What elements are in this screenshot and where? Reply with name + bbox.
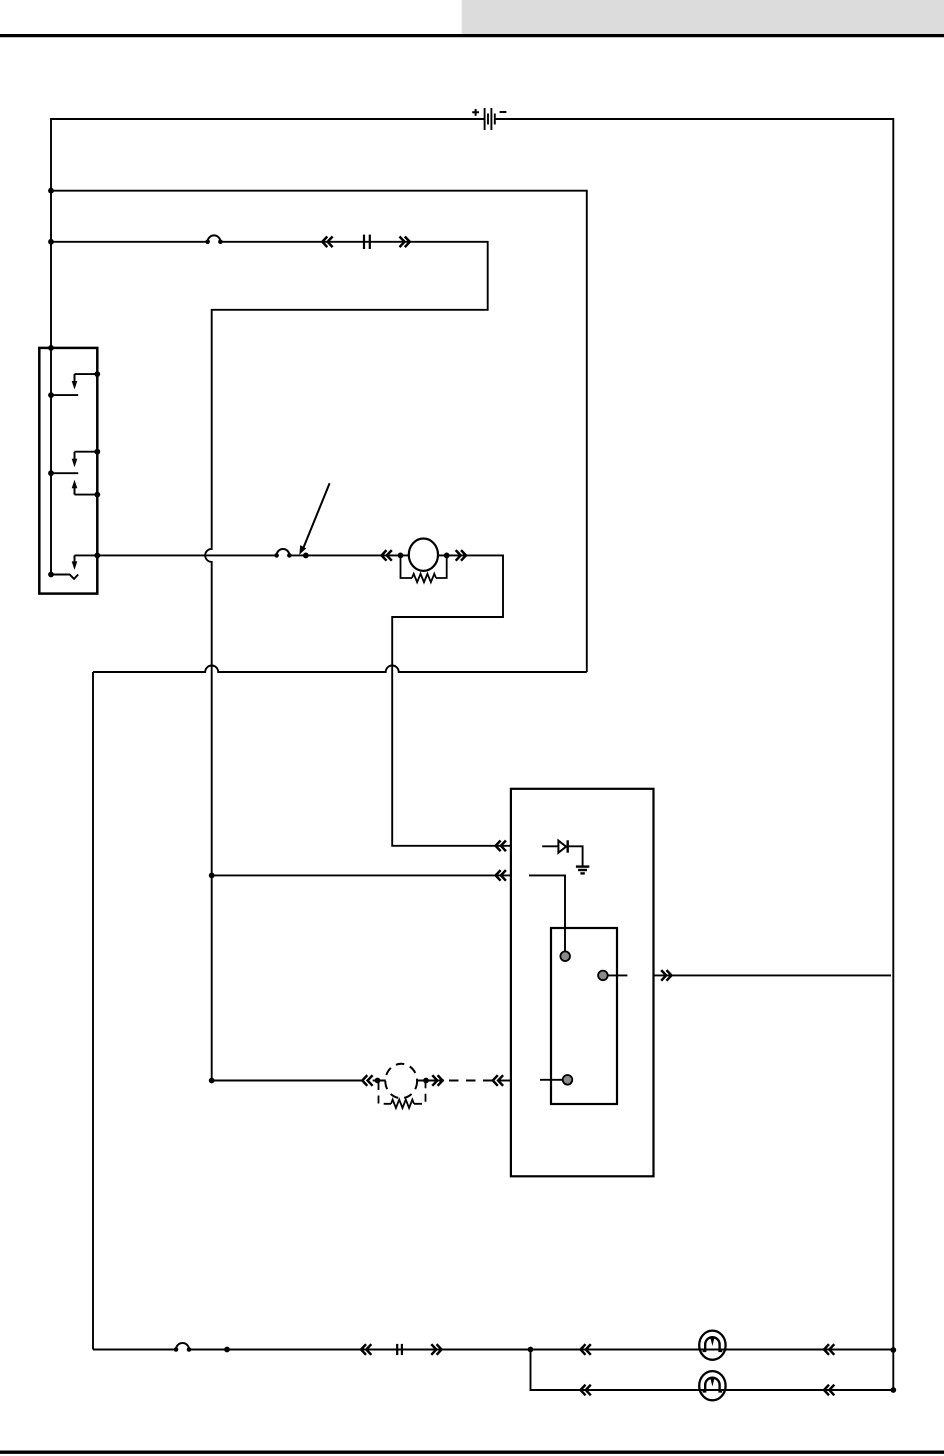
wire switch box to solenoid [97,554,400,556]
connector pin from solenoid K1 [456,550,466,561]
wire terminal 2 stub [608,974,628,976]
switch S1 throw 3 wire [75,554,98,556]
wire motor M2 line [531,1350,894,1391]
connector pin to solenoid K1 [382,550,392,561]
junction solenoid K1 left [398,553,404,559]
relay box pin 3 connector [493,1075,503,1086]
junction pole 3 end of bus [48,572,54,578]
junction motor branch [528,1347,534,1353]
wire diode cathode to ground [568,846,583,865]
switch S1 pole 3 contact with seat [51,575,78,579]
switch SW1 contact dot [303,553,309,559]
wire stub right [426,1080,444,1082]
relay terminal T2 [598,971,608,981]
circuit breaker CB3 [174,1343,192,1352]
resistor R2 (K2 bypass) [379,1082,426,1108]
battery minus label [500,111,507,113]
wire stubs to coil K2 [378,1080,427,1082]
wire ground return top with hops [93,666,587,672]
bottom rule [0,1450,944,1453]
wire dashed link to relay box pin 3 [449,1080,496,1082]
switch SW1 blade [299,483,329,555]
relay terminal T1 [560,951,570,961]
switch S1 throw 2a wire [75,451,98,453]
resistor R1 (K1 bypass) [401,555,447,582]
wire branch to solenoid K2 [212,1080,363,1082]
junction solenoid K1 right [444,553,450,559]
connector C2 pin (male) [431,1344,441,1355]
wire terminal 3 stub [540,1079,563,1081]
circuit breaker CB2 [274,549,291,558]
relay box pin 1 connector [496,841,506,852]
terminal S1 throw 1 [94,371,100,377]
wire stub [373,1080,378,1082]
junction branch to K2 [209,1078,215,1084]
terminal S1 throw 2a [94,449,100,455]
terminal S1 throw 3 [94,553,100,559]
battery BAT1 [485,108,495,130]
wire branch to relay box pin 2 [212,874,511,876]
junction solenoid K2 right [423,1078,429,1084]
connector pin motor M2 left [581,1385,591,1396]
connector pin motor M1 left [581,1344,591,1355]
switch S1 pole 2 contact [51,472,78,474]
wire left return bus down [92,672,94,1350]
junction right bus / M1 [890,1347,896,1353]
junction pole 1 on bus [48,392,54,398]
wire pin 2 to relay terminal 1 [529,875,565,951]
connector C1 pin (male) [400,237,410,248]
switch S1 pole 1 contact [51,394,78,396]
wire relay output to right bus [654,974,892,976]
relay block K3 (inner box) [551,928,617,1104]
battery plus label [472,109,479,116]
motor M2 [699,1371,725,1400]
terminal S1 throw 2b [94,492,100,498]
junction bus enters switch box [48,345,54,351]
wire bottom feed [93,1349,531,1351]
circuit breaker CB1 [205,235,222,244]
switch S1 contact arrow 3 [72,555,78,570]
junction solenoid K2 left [375,1078,381,1084]
relay assembly box A1 [511,789,654,1177]
wire stubs to coil K1 [401,554,447,556]
wire diode anode [542,845,558,847]
switch S1 throw 1 wire [75,373,98,375]
switch S1 contact arrow 1 [72,374,78,389]
motor M1 [699,1331,725,1360]
connector pin motor M2 right [824,1385,834,1396]
connector C2 mating faces [397,1344,402,1355]
wire motor M1 line [531,1349,894,1351]
wire battery+ to left bus (net B+) [51,119,485,575]
switch S1 throw 2b wire [75,494,98,496]
top rule [0,34,944,37]
switch S1 contact arrow 2a [72,452,78,468]
junction left bus / feed [48,188,54,194]
connector C1 pin (female) [322,237,332,248]
junction tap [224,1347,230,1353]
junction branch to pin 2 [209,873,215,879]
wire battery- right bus (net B-) [495,119,894,1390]
wire solenoid K1 to relay box pin 1 [392,555,511,845]
junction left bus / accessory branch [48,239,54,245]
connector pin to solenoid K2 [362,1075,372,1086]
relay box pin 2 connector [496,870,506,881]
switch S1 contact arrow 2b [72,480,78,495]
relay terminal T3 [563,1075,573,1085]
connector pin from solenoid K2 [432,1075,442,1086]
connector C1 mating faces [364,235,370,249]
switch box S1 (ignition/selector) [39,348,97,594]
ground GND1 [576,867,589,874]
wire feed to relay loop [51,191,587,672]
junction right bus end / M2 [890,1387,896,1393]
solenoid coil K1 [409,539,438,571]
connector C2 pin (female) [361,1344,371,1355]
relay output connector pin [661,970,671,981]
diode D1 [558,840,567,852]
solenoid coil K2 (dashed, optional) [385,1064,417,1098]
junction pole 2 on bus [48,470,54,476]
header gray bar [462,0,944,34]
connector pin motor M1 right [824,1344,834,1355]
wire accessory branch with hop over switch line [51,242,488,1081]
wire stub at box edge [498,1080,511,1082]
